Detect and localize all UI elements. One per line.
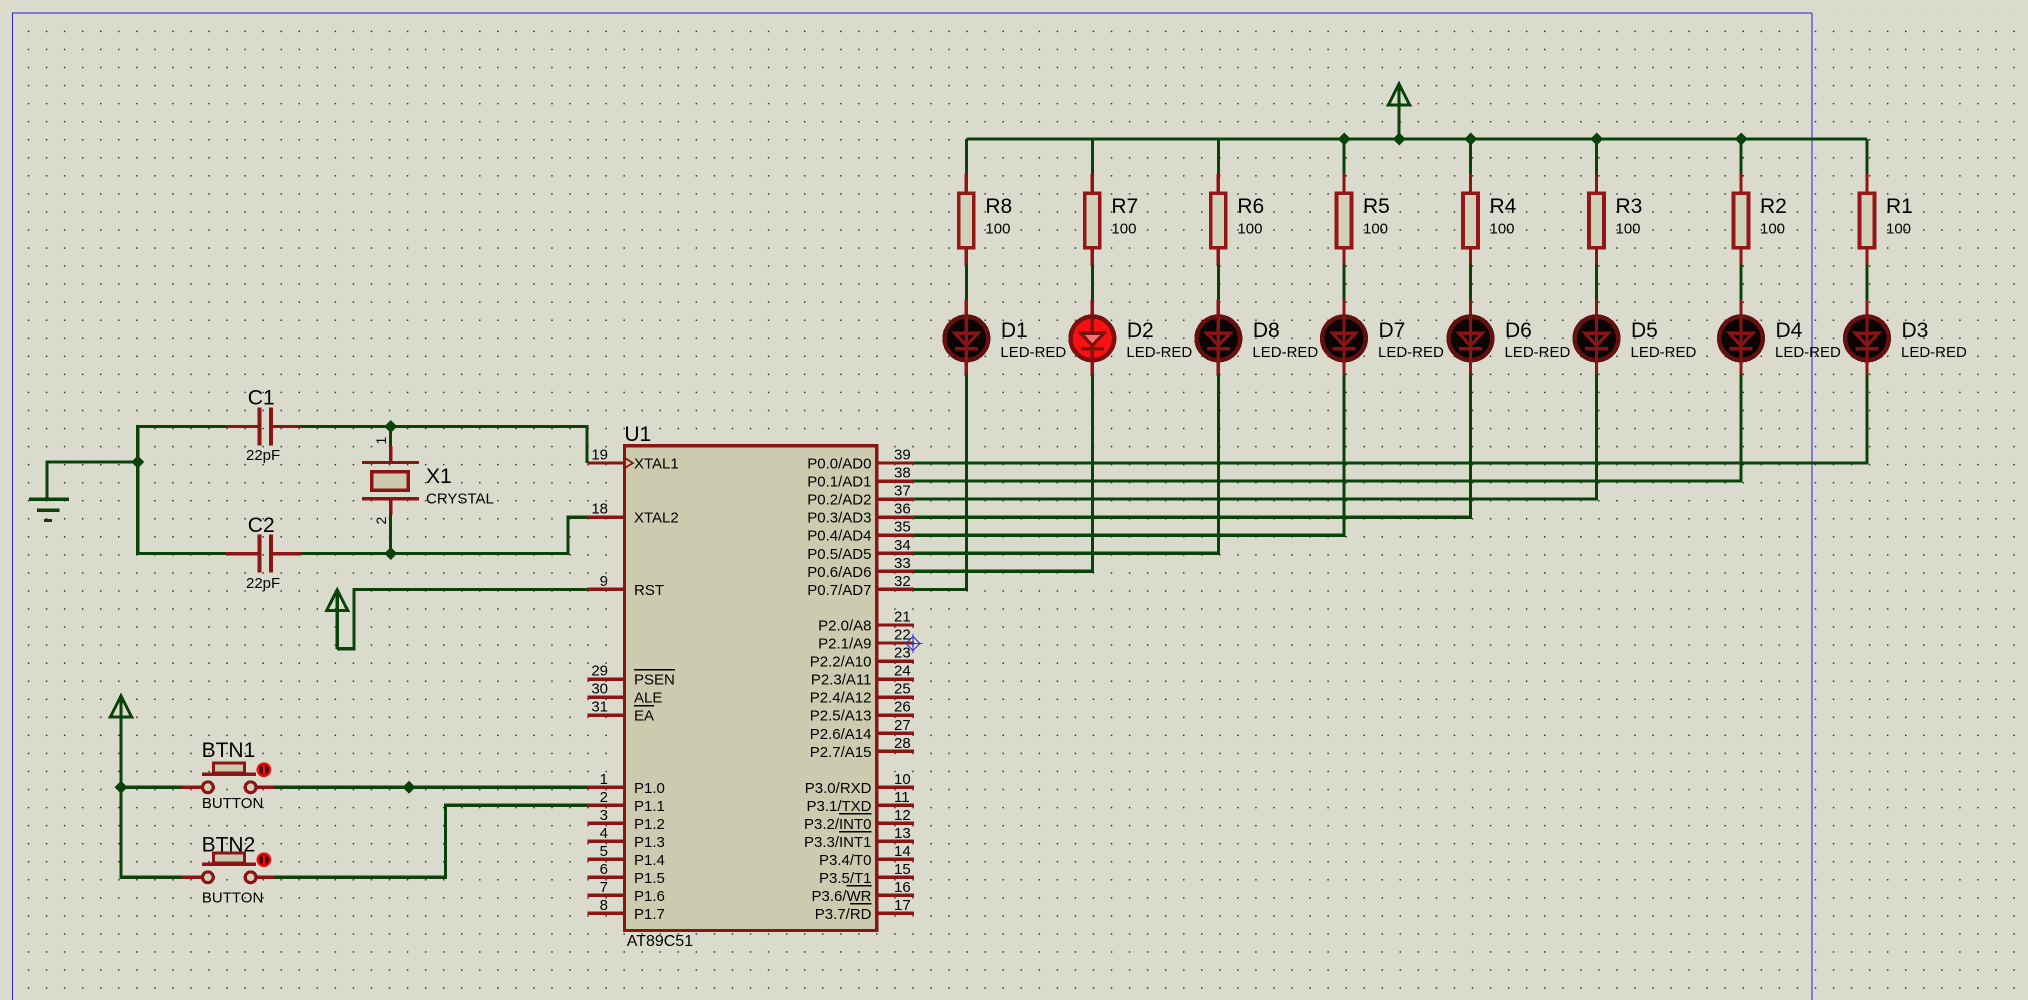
svg-text:AT89C51: AT89C51: [627, 933, 694, 950]
wire R7 to D2: [1091, 265, 1094, 302]
label D7: [1379, 319, 1406, 342]
svg-text:39: 39: [894, 447, 911, 464]
svg-text:12: 12: [894, 807, 911, 824]
svg-text:D1: D1: [1001, 319, 1028, 342]
pin 36 (P0.3/AD3) right side: [807, 501, 914, 527]
svg-text:R6: R6: [1237, 195, 1264, 218]
svg-text:C1: C1: [248, 387, 275, 410]
svg-text:X1: X1: [426, 465, 452, 488]
pin 3 (P1.2) left side: [587, 807, 665, 833]
wire VCC rail to R2: [1739, 139, 1742, 176]
svg-text:29: 29: [591, 663, 608, 680]
svg-text:22pF: 22pF: [246, 575, 280, 592]
svg-text:D8: D8: [1253, 319, 1280, 342]
svg-text:100: 100: [1886, 221, 1911, 238]
svg-text:CRYSTAL: CRYSTAL: [426, 491, 494, 508]
wire VCC rail to R4: [1469, 139, 1472, 176]
value LED-RED (D4): [1775, 344, 1841, 361]
svg-text:32: 32: [894, 573, 911, 590]
capacitor C2: [226, 535, 302, 573]
svg-text:25: 25: [894, 681, 911, 698]
pin 24 (P2.3/A11) right side: [811, 663, 914, 689]
wire BTN1 net (P1.0): [121, 786, 587, 789]
svg-text:LED-RED: LED-RED: [1000, 344, 1066, 361]
svg-text:P3.5/T1: P3.5/T1: [819, 870, 872, 887]
svg-text:19: 19: [591, 447, 608, 464]
svg-text:BUTTON: BUTTON: [202, 890, 263, 907]
wire D7 to P0 bus row y=535.2: [914, 375, 1344, 536]
value LED-RED (D7): [1378, 344, 1444, 361]
value BUTTON (BTN1): [202, 795, 263, 812]
pin 25 (P2.4/A12) right side: [810, 681, 914, 707]
svg-text:7: 7: [600, 879, 608, 896]
label R5: [1363, 195, 1390, 218]
value LED-RED (D2): [1126, 344, 1192, 361]
svg-text:D5: D5: [1631, 319, 1658, 342]
svg-text:37: 37: [894, 483, 911, 500]
pin 22 (P2.1/A9) right side: [818, 627, 914, 653]
value BUTTON (BTN2): [202, 890, 263, 907]
LED D3: [1845, 299, 1889, 376]
svg-text:23: 23: [894, 645, 911, 662]
svg-text:P2.4/A12: P2.4/A12: [810, 690, 872, 707]
svg-text:D2: D2: [1127, 319, 1154, 342]
label D8: [1253, 319, 1280, 342]
svg-text:BTN1: BTN1: [202, 739, 256, 762]
pin 2 (P1.1) left side: [587, 789, 665, 815]
svg-text:2: 2: [600, 789, 608, 806]
svg-text:31: 31: [591, 699, 608, 716]
pin 19 (XTAL1) left side: [587, 447, 678, 473]
value 100 (R8): [985, 221, 1010, 238]
capacitor C1: [226, 408, 302, 446]
svg-text:P0.2/AD2: P0.2/AD2: [807, 492, 871, 509]
value LED-RED (D8): [1252, 344, 1318, 361]
svg-text:XTAL1: XTAL1: [634, 456, 679, 473]
pin 30 (ALE) left side: [587, 681, 662, 707]
resistor R6: [1211, 174, 1226, 266]
value 100 (R5): [1363, 221, 1388, 238]
pin number 2 (X1): [373, 517, 389, 525]
svg-text:LED-RED: LED-RED: [1505, 344, 1571, 361]
wire BTN2 left (VCC branch): [121, 787, 182, 877]
pin 23 (P2.2/A10) right side: [810, 645, 914, 671]
label BTN1: [202, 739, 256, 762]
wire R6 to D8: [1217, 265, 1220, 302]
LED D6: [1449, 299, 1493, 376]
wire VCC rail to R3: [1595, 139, 1598, 176]
svg-text:P1.3: P1.3: [634, 834, 665, 851]
svg-text:26: 26: [894, 699, 911, 716]
junction on VCC rail x=1344: [1338, 133, 1351, 146]
svg-text:36: 36: [894, 501, 911, 518]
pin number 1 (X1): [373, 437, 389, 445]
label D1: [1001, 319, 1028, 342]
junction on VCC rail x=1596.5: [1590, 133, 1603, 146]
svg-text:LED-RED: LED-RED: [1126, 344, 1192, 361]
svg-text:P2.7/A15: P2.7/A15: [810, 744, 872, 761]
pin 26 (P2.5/A13) right side: [810, 699, 914, 725]
svg-text:P2.6/A14: P2.6/A14: [810, 726, 872, 743]
push button BTN2: [181, 853, 274, 883]
junction P1.0 net: [403, 781, 416, 794]
ground symbol: [29, 462, 69, 521]
svg-text:8: 8: [600, 897, 608, 914]
svg-text:P3.7/RD: P3.7/RD: [815, 906, 872, 923]
svg-text:100: 100: [1760, 221, 1785, 238]
svg-text:P1.2: P1.2: [634, 816, 665, 833]
svg-text:P1.5: P1.5: [634, 870, 665, 887]
junction on VCC rail x=1470.5: [1464, 133, 1477, 146]
crystal X1: [362, 427, 419, 554]
svg-text:6: 6: [600, 861, 608, 878]
resistor R2: [1734, 174, 1749, 266]
value 22pF (C1): [246, 447, 280, 464]
svg-text:XTAL2: XTAL2: [634, 510, 679, 527]
svg-text:38: 38: [894, 465, 911, 482]
svg-text:10: 10: [894, 771, 911, 788]
svg-text:27: 27: [894, 717, 911, 734]
svg-text:P0.5/AD5: P0.5/AD5: [807, 546, 871, 563]
pin 17 (P3.7/RD) right side: [815, 897, 914, 923]
wire R3 to D5: [1595, 265, 1598, 302]
pin 35 (P0.4/AD4) right side: [807, 519, 914, 545]
svg-text:11: 11: [894, 789, 910, 806]
wire VCC rail to R7: [1091, 139, 1094, 176]
pin 18 (XTAL2) left side: [587, 501, 678, 527]
pin 7 (P1.6) left side: [587, 879, 665, 905]
svg-text:P3.1/TXD: P3.1/TXD: [806, 798, 871, 815]
wire VCC rail to R6: [1217, 139, 1220, 176]
value CRYSTAL: [426, 491, 494, 508]
pin 33 (P0.6/AD6) right side: [807, 555, 914, 581]
junction X1 bottom: [384, 547, 397, 560]
resistor R7: [1085, 174, 1100, 266]
pin 16 (P3.6/WR) right side: [811, 879, 913, 905]
svg-text:P0.0/AD0: P0.0/AD0: [807, 456, 871, 473]
svg-text:LED-RED: LED-RED: [1631, 344, 1697, 361]
svg-text:P3.6/WR: P3.6/WR: [811, 888, 871, 905]
label R3: [1616, 195, 1643, 218]
svg-text:LED-RED: LED-RED: [1775, 344, 1841, 361]
resistor R5: [1337, 174, 1352, 266]
resistor R4: [1463, 174, 1478, 266]
wire VCC rail to R1: [1865, 139, 1868, 176]
svg-text:LED-RED: LED-RED: [1901, 344, 1967, 361]
svg-text:P0.1/AD1: P0.1/AD1: [807, 474, 871, 491]
svg-text:LED-RED: LED-RED: [1252, 344, 1318, 361]
svg-text:13: 13: [894, 825, 911, 842]
wire R2 to D4: [1739, 265, 1742, 302]
junction BTN1 row: [115, 781, 128, 794]
wire D1 to P0 bus row y=589.35: [914, 375, 967, 590]
wire R5 to D7: [1342, 265, 1345, 302]
junction on VCC rail x=1399: [1393, 133, 1406, 146]
svg-text:P3.4/T0: P3.4/T0: [819, 852, 872, 869]
svg-text:24: 24: [894, 663, 911, 680]
svg-text:P1.4: P1.4: [634, 852, 665, 869]
wire XTAL1 net (C1 row): [138, 427, 587, 464]
wire D5 to P0 bus row y=499.1: [914, 375, 1597, 500]
junction X1 top: [384, 420, 397, 433]
label D6: [1505, 319, 1532, 342]
wire BTN2 net to P1.1: [275, 805, 588, 877]
wire VCC rail: [966, 137, 1867, 140]
svg-text:R5: R5: [1363, 195, 1390, 218]
svg-text:P3.0/RXD: P3.0/RXD: [805, 780, 872, 797]
svg-text:P3.3/INT1: P3.3/INT1: [804, 834, 872, 851]
svg-text:P2.2/A10: P2.2/A10: [810, 654, 872, 671]
svg-text:100: 100: [1111, 221, 1136, 238]
svg-text:33: 33: [894, 555, 911, 572]
wire VCC rail to R8: [965, 139, 968, 176]
svg-text:P0.3/AD3: P0.3/AD3: [807, 510, 871, 527]
svg-text:D7: D7: [1379, 319, 1406, 342]
LED D8: [1197, 299, 1241, 376]
wire ground tap: [47, 462, 138, 481]
label R4: [1490, 195, 1517, 218]
svg-text:P2.5/A13: P2.5/A13: [810, 708, 872, 725]
svg-text:P0.4/AD4: P0.4/AD4: [807, 528, 871, 545]
svg-text:P0.7/AD7: P0.7/AD7: [807, 582, 871, 599]
pin 4 (P1.3) left side: [587, 825, 665, 851]
pin 34 (P0.5/AD5) right side: [807, 537, 914, 563]
label R1: [1886, 195, 1913, 218]
svg-text:100: 100: [985, 221, 1010, 238]
svg-text:28: 28: [894, 735, 911, 752]
wire D2 to P0 bus row y=571.3: [914, 375, 1093, 572]
value LED-RED (D3): [1901, 344, 1967, 361]
svg-text:100: 100: [1363, 221, 1388, 238]
svg-text:21: 21: [894, 609, 911, 626]
svg-text:R8: R8: [985, 195, 1012, 218]
svg-text:18: 18: [591, 501, 608, 518]
svg-text:U1: U1: [624, 423, 651, 446]
pin 28 (P2.7/A15) right side: [810, 735, 914, 761]
junction on VCC rail x=1741: [1735, 133, 1748, 146]
svg-text:EA: EA: [634, 708, 654, 725]
svg-text:R1: R1: [1886, 195, 1913, 218]
wire D3 to P0 bus row y=463: [914, 375, 1867, 464]
wire VCC rail to R5: [1342, 139, 1345, 176]
svg-text:R7: R7: [1111, 195, 1138, 218]
svg-text:RST: RST: [634, 582, 664, 599]
pin 12 (P3.2/INT0) right side: [804, 807, 914, 833]
value 22pF (C2): [246, 575, 280, 592]
svg-text:P1.7: P1.7: [634, 906, 665, 923]
svg-text:R4: R4: [1490, 195, 1517, 218]
value 100 (R6): [1237, 221, 1262, 238]
svg-text:P2.3/A11: P2.3/A11: [811, 672, 872, 689]
value LED-RED (D6): [1505, 344, 1571, 361]
svg-text:R2: R2: [1760, 195, 1787, 218]
resistor R8: [959, 174, 974, 266]
value 100 (R3): [1616, 221, 1641, 238]
svg-text:C2: C2: [248, 514, 275, 537]
svg-text:D3: D3: [1902, 319, 1929, 342]
resistor R1: [1860, 174, 1875, 266]
svg-text:LED-RED: LED-RED: [1378, 344, 1444, 361]
svg-text:ALE: ALE: [634, 690, 662, 707]
pin 9 (RST) left side: [587, 573, 664, 599]
power VCC arrow (top): [1388, 84, 1409, 139]
wire R1 to D3: [1865, 265, 1868, 302]
svg-text:P1.0: P1.0: [634, 780, 665, 797]
svg-text:BTN2: BTN2: [202, 834, 256, 857]
svg-text:P2.1/A9: P2.1/A9: [818, 636, 871, 653]
svg-text:5: 5: [600, 843, 608, 860]
pin 31 (EA) left side: [587, 699, 654, 725]
power VCC arrow (RST): [327, 590, 348, 649]
svg-text:16: 16: [894, 879, 911, 896]
wire R4 to D6: [1469, 265, 1472, 302]
pin 10 (P3.0/RXD) right side: [805, 771, 914, 797]
resistor R3: [1589, 174, 1604, 266]
LED D7: [1322, 299, 1366, 376]
svg-text:P3.2/INT0: P3.2/INT0: [804, 816, 872, 833]
svg-text:P2.0/A8: P2.0/A8: [818, 618, 871, 635]
wire D4 to P0 bus row y=481.05: [914, 375, 1741, 482]
junction ground tap: [131, 455, 144, 468]
svg-text:1: 1: [373, 437, 389, 445]
svg-text:R3: R3: [1616, 195, 1643, 218]
pin 21 (P2.0/A8) right side: [818, 609, 914, 635]
pin 11 (P3.1/TXD) right side: [806, 789, 913, 815]
pin 14 (P3.4/T0) right side: [819, 843, 914, 869]
value 100 (R2): [1760, 221, 1785, 238]
wire RST net: [337, 589, 587, 648]
label U1: [624, 423, 651, 446]
label BTN2: [202, 834, 256, 857]
svg-text:9: 9: [600, 573, 608, 590]
svg-text:100: 100: [1490, 221, 1515, 238]
label C1: [248, 387, 275, 410]
value 100 (R1): [1886, 221, 1911, 238]
value LED-RED (D5): [1631, 344, 1697, 361]
label C2: [248, 514, 275, 537]
value LED-RED (D1): [1000, 344, 1066, 361]
pin 29 (PSEN) left side: [587, 663, 675, 689]
pin 38 (P0.1/AD1) right side: [807, 465, 914, 491]
power VCC arrow (buttons): [110, 696, 131, 787]
cursor marker (blue) at pin 22: [904, 634, 923, 653]
wire D8 to P0 bus row y=553.25: [914, 375, 1219, 554]
value 100 (R7): [1111, 221, 1136, 238]
wire R8 to D1: [965, 265, 968, 302]
push button BTN1: [181, 763, 274, 793]
label D4: [1776, 319, 1803, 342]
svg-text:P1.1: P1.1: [634, 798, 665, 815]
svg-text:14: 14: [894, 843, 911, 860]
svg-text:30: 30: [591, 681, 608, 698]
svg-text:35: 35: [894, 519, 911, 536]
svg-text:100: 100: [1616, 221, 1641, 238]
svg-text:D6: D6: [1505, 319, 1532, 342]
svg-text:15: 15: [894, 861, 911, 878]
svg-text:1: 1: [600, 771, 608, 788]
label D3: [1902, 319, 1929, 342]
svg-text:BUTTON: BUTTON: [202, 795, 263, 812]
svg-text:P1.6: P1.6: [634, 888, 665, 905]
pin 6 (P1.5) left side: [587, 861, 665, 887]
wire XTAL2 net (C2 row): [138, 462, 588, 554]
svg-text:4: 4: [600, 825, 608, 842]
pin 13 (P3.3/INT1) right side: [804, 825, 914, 851]
svg-text:100: 100: [1237, 221, 1262, 238]
label R7: [1111, 195, 1138, 218]
LED D2: [1071, 299, 1115, 376]
pin 1 (P1.0) left side: [587, 771, 665, 797]
pin 27 (P2.6/A14) right side: [810, 717, 914, 743]
svg-text:22pF: 22pF: [246, 447, 280, 464]
label R8: [985, 195, 1012, 218]
LED D1: [945, 299, 989, 376]
label X1: [426, 465, 452, 488]
label D5: [1631, 319, 1658, 342]
svg-text:P0.6/AD6: P0.6/AD6: [807, 564, 871, 581]
LED D4: [1719, 299, 1763, 376]
svg-text:34: 34: [894, 537, 911, 554]
pin 5 (P1.4) left side: [587, 843, 665, 869]
pin 15 (P3.5/T1) right side: [819, 861, 914, 887]
wire D6 to P0 bus row y=517.15: [914, 375, 1471, 518]
value AT89C51: [627, 933, 694, 950]
svg-text:3: 3: [600, 807, 608, 824]
svg-text:2: 2: [373, 517, 389, 525]
label R6: [1237, 195, 1264, 218]
pin 37 (P0.2/AD2) right side: [807, 483, 914, 509]
LED D5: [1575, 299, 1619, 376]
value 100 (R4): [1490, 221, 1515, 238]
svg-text:D4: D4: [1776, 319, 1803, 342]
svg-text:PSEN: PSEN: [634, 672, 675, 689]
label D2: [1127, 319, 1154, 342]
svg-text:17: 17: [894, 897, 911, 914]
pin 32 (P0.7/AD7) right side: [807, 573, 914, 599]
label R2: [1760, 195, 1787, 218]
op-amp U1 body (AT89C51 microcontroller): [624, 446, 876, 931]
pin 8 (P1.7) left side: [587, 897, 665, 923]
pin 39 (P0.0/AD0) right side: [807, 447, 914, 473]
